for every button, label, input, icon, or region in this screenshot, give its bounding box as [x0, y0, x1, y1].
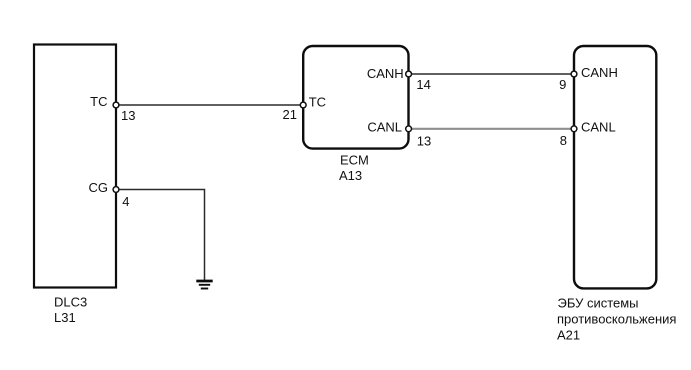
skid control ECU A21 body	[574, 46, 656, 288]
pin CANH (9) on A21	[571, 71, 577, 77]
svg-text:TC: TC	[90, 94, 107, 109]
svg-text:TC: TC	[309, 95, 326, 110]
svg-text:А21: А21	[557, 327, 580, 342]
ground symbol	[196, 281, 212, 289]
label DLC3 L31	[54, 295, 87, 326]
pin CG (4) on DLC3	[113, 187, 119, 193]
ECM A13 body	[303, 46, 408, 149]
wire CANL: ECM pin 13 to A21 pin 8	[409, 128, 574, 130]
connector DLC3 (L31) body	[34, 45, 116, 288]
pin TC (21) on ECM	[300, 102, 306, 108]
svg-text:CANH: CANH	[581, 65, 618, 80]
svg-text:13: 13	[417, 134, 431, 149]
svg-text:4: 4	[122, 194, 129, 209]
wire CG: DLC3 pin 4 to ground	[116, 190, 205, 281]
label ЭБУ системы противоскольжения А21	[557, 296, 676, 343]
svg-text:противоскольжения: противоскольжения	[557, 311, 676, 326]
pin CANL (13) on ECM	[406, 126, 412, 132]
svg-text:CANH: CANH	[367, 66, 404, 81]
svg-text:L31: L31	[54, 310, 76, 325]
svg-text:13: 13	[121, 108, 135, 123]
svg-text:CG: CG	[89, 180, 109, 195]
wire TC: DLC3 pin 13 to ECM pin 21	[116, 104, 303, 106]
svg-text:CANL: CANL	[581, 119, 616, 134]
pin CANL (8) on A21	[571, 126, 577, 132]
svg-text:8: 8	[560, 133, 567, 148]
wire CANH: ECM pin 14 to A21 pin 9	[409, 73, 574, 75]
svg-text:21: 21	[283, 107, 297, 122]
svg-text:ЭБУ системы: ЭБУ системы	[558, 296, 639, 311]
svg-text:14: 14	[416, 77, 430, 92]
svg-text:ECM: ECM	[340, 153, 369, 168]
label ECM A13	[339, 153, 369, 184]
pin CANH (14) on ECM	[406, 71, 412, 77]
svg-text:A13: A13	[339, 168, 362, 183]
pin TC (13) on DLC3	[113, 102, 119, 108]
svg-text:9: 9	[559, 77, 566, 92]
svg-text:DLC3: DLC3	[54, 295, 87, 310]
svg-text:CANL: CANL	[367, 119, 402, 134]
